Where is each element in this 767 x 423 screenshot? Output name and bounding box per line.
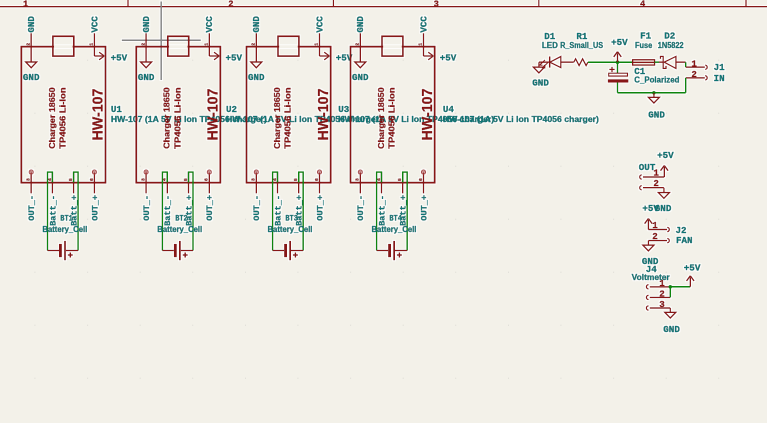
svg-text:1: 1 [23,0,28,10]
svg-text:3: 3 [434,0,439,10]
svg-text:Batt_-: Batt_- [48,195,58,226]
svg-text:OUT_+: OUT_+ [90,195,100,221]
svg-text:1: 1 [314,43,320,46]
svg-text:LED: LED [542,41,558,50]
svg-text:R_Small_US: R_Small_US [560,41,604,50]
svg-text:GND: GND [663,324,680,335]
svg-text:2: 2 [355,43,361,46]
svg-text:6: 6 [418,178,424,181]
svg-text:OUT_-: OUT_- [142,195,152,221]
svg-text:U1: U1 [111,104,123,115]
svg-text:C_Polarized: C_Polarized [634,76,679,85]
svg-text:+5V: +5V [611,37,628,48]
svg-text:GND: GND [26,16,37,33]
svg-text:U3: U3 [338,104,350,115]
svg-text:TP4056 Li-Ion: TP4056 Li-Ion [387,87,397,148]
svg-text:J1: J1 [714,62,726,73]
svg-text:VCC: VCC [418,16,429,33]
svg-text:3: 3 [26,178,32,181]
svg-text:Battery_Cell: Battery_Cell [268,225,313,234]
svg-text:2: 2 [653,178,659,189]
svg-text:GND: GND [251,16,262,33]
svg-text:HW-107 (1A 5V Li Ion TP4056 ch: HW-107 (1A 5V Li Ion TP4056 charger) [443,115,599,124]
svg-text:BT1: BT1 [60,214,73,223]
svg-text:D2: D2 [664,31,675,42]
svg-text:Charger 18650: Charger 18650 [162,87,172,149]
svg-text:3: 3 [251,178,257,181]
svg-text:VCC: VCC [314,16,325,33]
svg-text:1: 1 [659,278,665,289]
svg-text:1: 1 [652,220,658,231]
svg-text:GND: GND [648,110,665,121]
svg-text:GND: GND [355,16,366,33]
svg-text:GND: GND [248,72,265,83]
svg-text:HW-107: HW-107 [315,89,332,141]
svg-text:GND: GND [138,72,155,83]
svg-text:GND: GND [532,78,549,89]
svg-text:TP4056 Li-Ion: TP4056 Li-Ion [283,87,293,148]
svg-text:4: 4 [640,0,646,10]
svg-text:2: 2 [140,43,146,46]
svg-text:2: 2 [25,43,31,46]
svg-text:GND: GND [23,72,40,83]
svg-text:1: 1 [653,167,659,178]
svg-text:OUT_-: OUT_- [27,195,37,221]
svg-text:HW-107: HW-107 [205,89,222,141]
svg-text:1: 1 [89,43,95,46]
svg-text:VCC: VCC [204,16,215,33]
svg-text:BT2: BT2 [175,214,188,223]
svg-text:+5V: +5V [684,262,701,273]
svg-text:Charger 18650: Charger 18650 [376,87,386,149]
svg-text:3: 3 [659,299,665,310]
svg-text:TP4056 Li-Ion: TP4056 Li-Ion [58,87,68,148]
svg-text:GND: GND [141,16,152,33]
svg-text:IN: IN [714,73,725,84]
svg-text:OUT_-: OUT_- [356,195,366,221]
svg-text:TP4056 Li-Ion: TP4056 Li-Ion [172,87,182,148]
svg-text:+5V: +5V [657,150,674,161]
svg-text:2: 2 [691,69,697,80]
svg-text:U2: U2 [226,104,237,115]
svg-text:FAN: FAN [676,235,693,246]
svg-text:6: 6 [204,178,210,181]
svg-text:OUT_-: OUT_- [252,195,262,221]
svg-text:6: 6 [89,178,95,181]
svg-text:BT3: BT3 [285,214,298,223]
svg-text:HW-107: HW-107 [419,89,436,141]
svg-text:BT4: BT4 [389,214,402,223]
svg-text:1: 1 [691,58,697,69]
svg-text:2: 2 [251,43,257,46]
svg-text:GND: GND [352,72,369,83]
svg-text:Batt_-: Batt_- [273,195,283,226]
svg-text:+5V: +5V [226,52,243,63]
svg-text:1N5822: 1N5822 [658,41,684,50]
svg-text:+5V: +5V [642,203,659,214]
svg-text:VCC: VCC [89,16,100,33]
svg-text:U4: U4 [443,104,455,115]
svg-text:3: 3 [141,178,147,181]
svg-text:+5V: +5V [440,52,457,63]
svg-text:1: 1 [204,43,210,46]
svg-text:3: 3 [355,178,361,181]
svg-text:Battery_Cell: Battery_Cell [372,225,417,234]
svg-text:F1: F1 [640,31,652,42]
svg-text:Battery_Cell: Battery_Cell [42,225,87,234]
svg-text:OUT_+: OUT_+ [315,195,325,221]
svg-text:Battery_Cell: Battery_Cell [157,225,202,234]
svg-text:OUT_+: OUT_+ [419,195,429,221]
svg-text:Charger 18650: Charger 18650 [47,87,57,149]
svg-text:2: 2 [228,0,233,10]
svg-text:+5V: +5V [111,52,128,63]
svg-text:2: 2 [652,231,658,242]
svg-text:Fuse: Fuse [635,41,653,50]
svg-text:Charger 18650: Charger 18650 [272,87,282,149]
svg-text:6: 6 [314,178,320,181]
svg-text:2: 2 [659,288,665,299]
svg-text:1: 1 [418,43,424,46]
svg-text:HW-107: HW-107 [90,89,107,141]
svg-text:Batt_-: Batt_- [163,195,173,226]
svg-text:Batt_-: Batt_- [377,195,387,226]
svg-text:OUT_+: OUT_+ [205,195,215,221]
